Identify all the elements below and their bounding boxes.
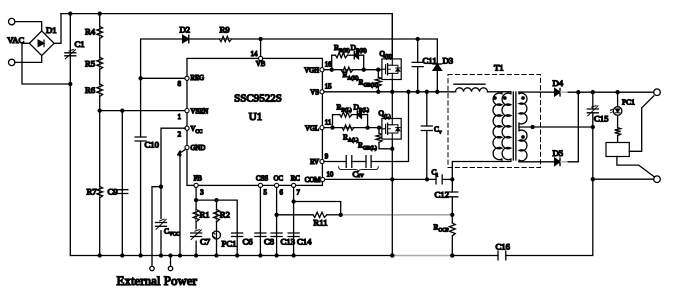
svg-text:U1: U1 <box>249 111 262 123</box>
resistor RB(L) <box>340 112 352 117</box>
node rail R_OCP <box>450 253 454 257</box>
svg-text:10: 10 <box>327 172 334 179</box>
node Cv bottom <box>425 177 429 181</box>
svg-text:REG: REG <box>191 75 205 82</box>
node C15 return <box>591 177 595 181</box>
wire grey rail segment <box>392 255 452 257</box>
pin OC 6 <box>275 183 279 187</box>
capacitor CVCC <box>154 219 168 230</box>
pin RV 9 <box>320 159 324 163</box>
resistor R_OCP <box>449 215 455 256</box>
svg-text:D5: D5 <box>553 148 564 158</box>
node rail junctions <box>98 253 395 257</box>
node gate-H branch right <box>362 68 366 72</box>
svg-text:T1: T1 <box>494 63 504 73</box>
node Crv return <box>406 90 410 94</box>
capacitor C1 <box>65 53 76 56</box>
wire Q(H) drain <box>391 14 393 59</box>
wire primary ground rail <box>70 255 392 257</box>
winding secondary lower <box>519 130 527 161</box>
node D3 bottom <box>435 90 439 94</box>
svg-text:C15: C15 <box>594 114 608 124</box>
inductor Lr <box>456 88 488 92</box>
svg-text:GND: GND <box>191 145 206 152</box>
terminal external-2 <box>168 266 172 270</box>
diode DB(L) <box>357 111 361 118</box>
resistor RB(H) <box>336 53 348 58</box>
svg-text:OC: OC <box>274 176 284 183</box>
node gate-H branch left <box>330 68 334 72</box>
pin COM 10 <box>321 177 325 181</box>
wire FB column <box>195 187 197 255</box>
wire grey stub D5 <box>561 161 569 163</box>
wire RB(L) branch <box>333 115 340 128</box>
node C11 top <box>416 37 420 41</box>
winding secondary upper <box>519 92 527 124</box>
svg-text:6: 6 <box>280 190 284 197</box>
transistor Q(H) MOSFET <box>382 59 401 80</box>
resistor RA(L) <box>342 125 354 130</box>
wire primary bottom <box>452 159 502 179</box>
node primary dot 2 <box>503 96 507 100</box>
capacitor C11 <box>412 39 423 92</box>
svg-text:COM: COM <box>305 177 321 184</box>
wire VGL gate line <box>324 127 382 129</box>
diode PC1 photo-diode <box>610 92 622 127</box>
wire VCC pin to CVCC <box>161 128 185 255</box>
node FB <box>194 198 198 202</box>
diode D3 <box>433 64 441 70</box>
node Cv top <box>425 90 429 94</box>
svg-text:VSEN: VSEN <box>191 108 209 115</box>
svg-text:C11: C11 <box>423 56 437 66</box>
pin VGL 11 <box>320 126 324 130</box>
wire RC to R11 right <box>294 202 341 215</box>
diode D4 <box>555 89 560 96</box>
wire VB feed line <box>141 39 438 78</box>
node bridge-minus / C1 <box>68 82 72 86</box>
resistor PC1 series <box>615 128 621 136</box>
wire C9 column <box>121 111 123 256</box>
transistor PC1 photo-transistor <box>213 231 221 239</box>
svg-text:C6: C6 <box>243 237 254 247</box>
capacitor C16 <box>498 251 506 260</box>
svg-text:C1: C1 <box>75 39 85 49</box>
svg-text:R4: R4 <box>85 27 96 37</box>
svg-text:D4: D4 <box>553 78 564 88</box>
resistor RGB(L) <box>376 128 392 149</box>
terminal VAC-top <box>9 18 15 24</box>
svg-text:R9: R9 <box>220 25 230 35</box>
node VB pin branch <box>258 37 262 41</box>
node C11 bottom <box>416 90 420 94</box>
resistor R5 <box>97 57 103 69</box>
svg-text:External Power: External Power <box>117 273 198 288</box>
svg-text:PC1: PC1 <box>622 98 635 107</box>
transistor Q(L) MOSFET <box>382 119 401 140</box>
resistor R11 <box>313 212 327 217</box>
svg-text:C12: C12 <box>435 190 449 200</box>
terminal VAC-bottom <box>9 59 15 65</box>
wire Q(H) source to VS <box>391 80 393 92</box>
wire D5 to plus rail <box>568 92 578 162</box>
node secondary dot upper <box>521 96 525 100</box>
node COM/QL source <box>390 177 394 181</box>
node RGB(H) top <box>376 68 380 72</box>
wire C16 line <box>452 255 498 257</box>
node RGB(H) bottom <box>376 90 380 94</box>
svg-text:8: 8 <box>178 81 182 88</box>
pin RC 7 <box>292 183 296 187</box>
terminal external-1 <box>150 266 154 270</box>
wire C1 column <box>69 14 71 256</box>
svg-text:D1: D1 <box>46 25 57 35</box>
pin VSEN 1 <box>185 109 189 113</box>
node rail QL column <box>390 253 394 257</box>
diode DB(H) <box>354 52 358 59</box>
svg-text:C8: C8 <box>264 237 275 247</box>
winding primary-1 <box>493 92 502 160</box>
svg-text:7: 7 <box>297 190 301 197</box>
resistor RA(H) <box>341 67 353 72</box>
wire regulator to top terminal <box>629 96 654 151</box>
capacitor C9 <box>117 190 128 194</box>
pin VCC 2 <box>185 126 189 130</box>
node D5 rail <box>576 90 580 94</box>
diode D2 <box>183 35 189 42</box>
svg-text:RV: RV <box>310 159 319 166</box>
capacitor C10 <box>135 137 146 141</box>
svg-text:9: 9 <box>325 153 329 160</box>
node OC/R11 <box>274 213 278 217</box>
svg-text:16: 16 <box>325 62 332 69</box>
capacitor C15 <box>587 92 598 179</box>
capacitor C8 <box>255 233 266 237</box>
svg-text:C10: C10 <box>145 140 160 150</box>
pin GND 4 <box>185 145 189 149</box>
wire OC column <box>276 187 278 255</box>
wire secondary return rail <box>593 178 654 180</box>
resistor R4 <box>97 26 103 38</box>
wire FB to R2/C6 <box>196 200 237 255</box>
svg-text:FB: FB <box>194 176 203 183</box>
wire center tap <box>518 123 520 130</box>
wire VB pin drop <box>260 39 262 57</box>
wire Q(L) source column <box>391 139 393 255</box>
pin CSS 5 <box>258 183 262 187</box>
node RC branch <box>291 199 295 203</box>
node RGB(L) top <box>377 125 381 129</box>
wire GND pin column <box>180 149 186 255</box>
capacitor Cv <box>421 92 432 180</box>
winding primary-2 <box>502 92 511 160</box>
svg-text:RC: RC <box>291 176 301 183</box>
resistor R6 <box>97 84 103 97</box>
wire RC column <box>293 187 295 255</box>
wire output plus rail <box>568 91 654 93</box>
node PC1 top <box>615 90 619 94</box>
svg-text:C9: C9 <box>108 187 118 197</box>
op-amp U1 SSC9522S IC body <box>187 58 322 185</box>
svg-text:C7: C7 <box>200 237 211 247</box>
wire RV line <box>324 161 346 163</box>
capacitor C14 <box>288 233 299 237</box>
node C9 top <box>120 108 124 112</box>
pin VB 14 <box>259 56 263 60</box>
wire bridge minus to C1 bottom node <box>22 43 70 84</box>
wire CSS column <box>259 187 261 255</box>
svg-text:2: 2 <box>178 132 182 139</box>
resistor R2 <box>214 209 220 221</box>
svg-text:R11: R11 <box>313 218 327 228</box>
svg-text:D2: D2 <box>180 25 191 35</box>
terminal output-minus <box>654 176 661 183</box>
pin VS 15 <box>320 90 324 94</box>
capacitor Ci <box>436 175 442 184</box>
brace Crv <box>339 167 379 173</box>
node secondary dot lower <box>521 135 525 139</box>
capacitor C13 <box>271 233 282 237</box>
node VCC/external <box>159 185 163 189</box>
wire Q(L) drain <box>391 92 393 119</box>
node R4 top <box>98 11 102 15</box>
wire COM line <box>325 178 436 180</box>
wire secondary bottom out <box>519 160 554 162</box>
node Ci right / C12 top <box>450 177 454 181</box>
svg-text:VGH: VGH <box>304 67 319 74</box>
svg-text:C13: C13 <box>281 237 295 247</box>
svg-text:R2: R2 <box>220 210 230 220</box>
wire VS line <box>324 91 456 93</box>
node primary dot 1 <box>493 96 497 100</box>
svg-text:5: 5 <box>264 190 268 197</box>
wire RB(H) branch <box>332 55 336 69</box>
svg-text:C16: C16 <box>496 242 511 252</box>
svg-text:Crv: Crv <box>353 170 365 179</box>
node C15 top <box>591 90 595 94</box>
resistor R1 <box>193 209 199 221</box>
capacitor Crv series pair <box>346 156 352 168</box>
wire VGH gate line <box>324 69 382 71</box>
node VS/QH source <box>390 90 394 94</box>
node gate-L branch right <box>365 125 369 129</box>
wire Lr to primary <box>488 91 511 93</box>
wire grey stub D4 <box>561 91 569 93</box>
node R_OCP bottom <box>450 253 454 257</box>
node gate-L branch left <box>330 125 334 129</box>
wire C10 column <box>140 78 142 137</box>
terminal output-plus <box>654 89 661 96</box>
pin VGH 16 <box>320 68 324 72</box>
svg-text:1: 1 <box>178 114 181 121</box>
svg-text:14: 14 <box>251 51 258 58</box>
capacitor C6 <box>232 233 243 237</box>
shunt regulator box <box>606 143 629 157</box>
svg-text:R7: R7 <box>87 187 98 197</box>
wire VAC-top to bridge <box>15 22 42 31</box>
svg-text:3: 3 <box>200 190 204 197</box>
node C15 center tap <box>591 125 595 129</box>
node C1 top <box>68 11 72 15</box>
wire regulator bottom to bottom terminal <box>617 157 654 177</box>
svg-text:PC1: PC1 <box>222 239 237 249</box>
node REG/D2 junction <box>138 76 142 80</box>
capacitor C7 <box>189 230 203 241</box>
resistor R7 <box>97 187 103 198</box>
svg-text:VS: VS <box>310 90 319 97</box>
wire secondary top out <box>519 91 554 93</box>
core bar Lr <box>454 83 485 85</box>
resistor RGB(H) <box>375 70 381 92</box>
svg-text:R1: R1 <box>200 210 210 220</box>
node R2 top <box>214 198 218 202</box>
wire R2/PC1 column <box>216 200 218 255</box>
svg-text:R6: R6 <box>85 85 96 95</box>
svg-text:D3: D3 <box>443 56 454 66</box>
svg-text:VGL: VGL <box>305 125 319 132</box>
wire grey OCP sense link <box>341 214 453 216</box>
svg-text:VB: VB <box>256 61 266 68</box>
diode D5 <box>555 158 560 165</box>
svg-text:11: 11 <box>325 120 332 127</box>
transformer T1 dashed box <box>448 75 541 168</box>
svg-text:R5: R5 <box>85 59 95 69</box>
resistor R9 <box>220 36 232 41</box>
wire external power terminal 2 <box>170 256 172 267</box>
svg-text:SSC9522S: SSC9522S <box>234 93 282 105</box>
core T1 <box>513 92 516 160</box>
wire REG line <box>141 77 186 79</box>
node C12/R11 grey <box>450 213 454 217</box>
node R11/RC <box>339 213 343 217</box>
wire HV top rail <box>61 14 392 59</box>
node divider/VSEN <box>98 108 102 112</box>
wire R11 line <box>277 214 313 216</box>
pin REG 8 <box>185 76 189 80</box>
node center tap <box>530 125 534 129</box>
svg-text:15: 15 <box>325 84 332 91</box>
wire D3 column <box>436 39 438 92</box>
wire VAC-bottom to bridge <box>15 56 42 63</box>
svg-text:C14: C14 <box>297 237 312 247</box>
bridge rectifier D1 <box>29 31 54 56</box>
wire divider column <box>99 14 101 256</box>
wire bridge plus to top rail <box>54 14 61 44</box>
svg-text:CSS: CSS <box>256 176 268 183</box>
capacitor C12 <box>447 179 458 214</box>
wire external power terminal 1 <box>152 187 161 267</box>
pin FB 3 <box>194 183 198 187</box>
node Q(L) source <box>390 147 394 151</box>
wire VSEN line <box>100 110 186 112</box>
